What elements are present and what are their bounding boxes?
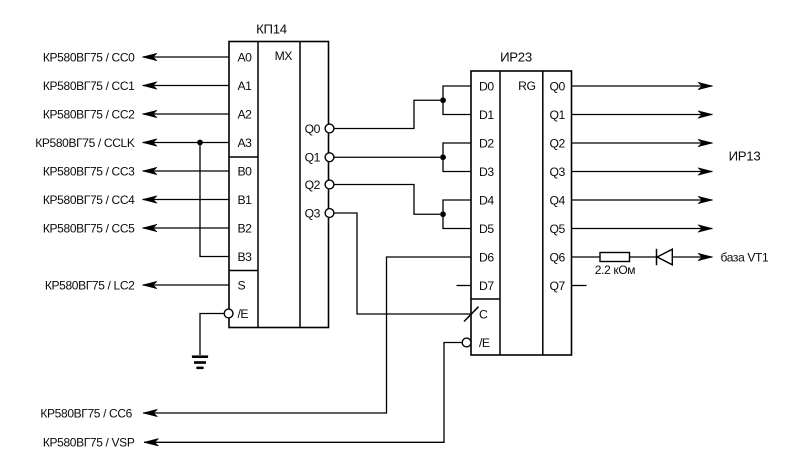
register U2 ИР23 box [471, 71, 572, 355]
svg-text:/E: /E [238, 307, 249, 321]
svg-text:Q7: Q7 [550, 279, 566, 293]
stub on pin D7 (unconnected) [457, 285, 472, 287]
svg-text:D7: D7 [479, 279, 494, 293]
wire U2 output Q4 to ИР13 bus [572, 196, 713, 203]
svg-text:Q1: Q1 [550, 108, 566, 122]
wire pin A3 to net КР580ВГ75 / CCLK [143, 139, 230, 146]
wire Q1 to D2/D3 junction [334, 156, 440, 158]
diode VD1 [657, 249, 673, 265]
wire U2 output Q0 to ИР13 bus [572, 82, 713, 89]
wire U2 output Q2 to ИР13 bus [572, 139, 713, 146]
wire pin B1 to net КР580ВГ75 / CC4 [143, 196, 230, 203]
output circle Q1 of U1 [325, 153, 334, 162]
svg-text:/E: /E [479, 336, 490, 350]
wire pin B2 to net КР580ВГ75 / CC5 [143, 224, 230, 231]
wire Q0 to D0/D1 junction [334, 100, 440, 128]
dynamic-input slash on pin C [464, 307, 479, 322]
output circle Q0 of U1 [325, 124, 334, 133]
svg-text:Q3: Q3 [550, 165, 566, 179]
stub on pin Q7 (unconnected) [572, 285, 587, 287]
resistor R1 2.2 кОм [600, 253, 630, 262]
wire pin S to net КР580ВГ75 / LC2 [143, 281, 230, 288]
svg-text:Q3: Q3 [305, 206, 321, 220]
svg-text:D5: D5 [479, 222, 494, 236]
svg-text:КР580ВГ75 / CC4: КР580ВГ75 / CC4 [43, 193, 135, 207]
svg-text:Q0: Q0 [550, 79, 566, 93]
svg-text:RG: RG [518, 79, 535, 93]
svg-text:Q0: Q0 [305, 122, 321, 136]
wire pin D6 to net КР580ВГ75/CC6 [143, 257, 471, 417]
output circle Q3 of U1 [325, 209, 334, 218]
svg-text:2.2 кОм: 2.2 кОм [595, 263, 635, 277]
svg-text:КР580ВГ75 / CCLK: КР580ВГ75 / CCLK [35, 136, 135, 150]
svg-text:ИР23: ИР23 [500, 49, 532, 64]
inversion circle on U1 pin /E [224, 309, 233, 318]
wire pin A0 to net КР580ВГ75 / CC0 [143, 53, 230, 60]
svg-text:Q6: Q6 [550, 250, 566, 264]
junction on CCLK line (node CCLK) [197, 140, 203, 146]
svg-text:Q2: Q2 [305, 178, 321, 192]
wire junction to pins D4 and D5 [443, 200, 471, 229]
svg-text:A3: A3 [238, 136, 253, 150]
svg-text:ИР13: ИР13 [729, 148, 761, 163]
svg-text:КП14: КП14 [256, 21, 287, 36]
wire Q6 to resistor R1 [572, 256, 601, 258]
svg-text:D4: D4 [479, 193, 494, 207]
multiplexer U1 КП14 box [229, 42, 329, 328]
svg-text:D3: D3 [479, 165, 494, 179]
svg-text:S: S [238, 278, 246, 292]
svg-text:B1: B1 [238, 193, 253, 207]
svg-text:C: C [479, 307, 488, 321]
svg-text:B3: B3 [238, 250, 253, 264]
wire pin A1 to net КР580ВГ75 / CC1 [143, 82, 230, 89]
junction node D4/D5 [440, 211, 446, 217]
wire U2 output Q1 to ИР13 bus [572, 111, 713, 118]
ground symbol [192, 355, 208, 369]
svg-text:КР580ВГ75 / CC2: КР580ВГ75 / CC2 [43, 107, 135, 121]
svg-text:A1: A1 [238, 79, 253, 93]
svg-text:Q1: Q1 [305, 151, 321, 165]
wire U2 /E to net КР580ВГ75/VSP [144, 343, 462, 447]
wire Q3 to pin C of U2 [334, 213, 471, 314]
svg-text:КР580ВГ75 / CC5: КР580ВГ75 / CC5 [43, 221, 135, 235]
output circle Q2 of U1 [325, 180, 334, 189]
wire U2 output Q5 to ИР13 bus [572, 225, 713, 232]
wire U1 /E to ground [200, 314, 224, 356]
svg-text:D6: D6 [479, 250, 494, 264]
inversion circle on U2 pin /E [462, 338, 471, 347]
wire U2 output Q3 to ИР13 bus [572, 168, 713, 175]
svg-text:Q5: Q5 [550, 222, 566, 236]
svg-text:КР580ВГ75 / CC0: КР580ВГ75 / CC0 [43, 50, 135, 64]
svg-text:база VT1: база VT1 [721, 250, 770, 264]
wire Q2 to D4/D5 junction [334, 185, 440, 215]
svg-text:MX: MX [275, 49, 293, 63]
svg-text:КР580ВГ75 / CC1: КР580ВГ75 / CC1 [43, 79, 135, 93]
wire CCLK junction to pin B3 [200, 143, 229, 257]
wire pin A2 to net КР580ВГ75 / CC2 [143, 110, 230, 117]
wire junction to pins D2 and D3 [443, 143, 471, 172]
svg-text:КР580ВГ75 / VSP: КР580ВГ75 / VSP [43, 436, 135, 450]
svg-text:D1: D1 [479, 108, 494, 122]
svg-text:Q4: Q4 [550, 193, 566, 207]
wire resistor R1 to diode VD1 [630, 256, 657, 258]
svg-text:Q2: Q2 [550, 136, 566, 150]
svg-text:КР580ВГ75 / CC3: КР580ВГ75 / CC3 [43, 164, 135, 178]
svg-text:D0: D0 [479, 79, 494, 93]
wire+arrow diode VD1 to база VT1 [672, 253, 712, 260]
svg-text:A2: A2 [238, 107, 253, 121]
wire pin B0 to net КР580ВГ75 / CC3 [143, 167, 230, 174]
junction node D0/D1 [440, 97, 446, 103]
junction node D2/D3 [440, 154, 446, 160]
svg-text:КР580ВГ75 / CC6: КР580ВГ75 / CC6 [40, 406, 132, 420]
svg-text:КР580ВГ75 / LC2: КР580ВГ75 / LC2 [45, 278, 135, 292]
svg-text:A0: A0 [238, 50, 253, 64]
wire junction to pins D0 and D1 [443, 86, 471, 115]
svg-text:B2: B2 [238, 221, 253, 235]
svg-text:B0: B0 [238, 164, 253, 178]
svg-text:D2: D2 [479, 136, 494, 150]
